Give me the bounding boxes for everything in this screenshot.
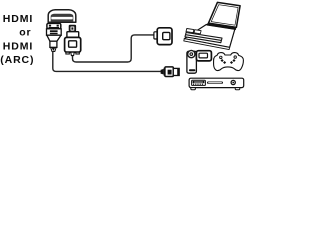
laptop [184, 2, 240, 49]
svg-text:or: or [19, 26, 31, 38]
svg-text:HDMI: HDMI [3, 13, 33, 25]
laptop hinge bar [207, 24, 236, 29]
controller d-pad diamonds [221, 59, 224, 62]
disc player [189, 78, 244, 90]
player vent panel [192, 80, 206, 85]
HDMI plug top-view (left, pointing up) [47, 23, 62, 51]
svg-text:(ARC): (ARC) [0, 54, 34, 66]
laptop keyboard [185, 33, 222, 43]
camcorder lens [187, 50, 196, 59]
camcorder [187, 50, 212, 73]
HDMI plug front-tip view (right of cluster, pointing up) [65, 25, 81, 56]
camcorder label bar [189, 69, 196, 71]
camcorder viewfinder [196, 51, 211, 61]
controller button diamonds [230, 61, 233, 64]
HDMI plug rear view (pointing right at laptop) [154, 28, 172, 45]
laptop base top surface [184, 25, 235, 48]
game controller [214, 53, 244, 71]
svg-text:HDMI: HDMI [3, 41, 33, 53]
player power button [231, 80, 235, 84]
player disc tray [207, 82, 223, 84]
HDMI port face (top of connector cluster) [48, 10, 76, 23]
cable from right plug up to laptop plug [73, 35, 155, 62]
HDMI plug side view (pointing right at devices) [161, 67, 180, 77]
laptop touchpad cells [186, 29, 201, 34]
laptop screen inner bezel [211, 5, 238, 26]
cable from left plug to bottom-right plug [53, 52, 161, 72]
laptop front edge thickness [184, 39, 230, 50]
player feet [191, 88, 196, 90]
laptop screen outer [209, 2, 241, 27]
